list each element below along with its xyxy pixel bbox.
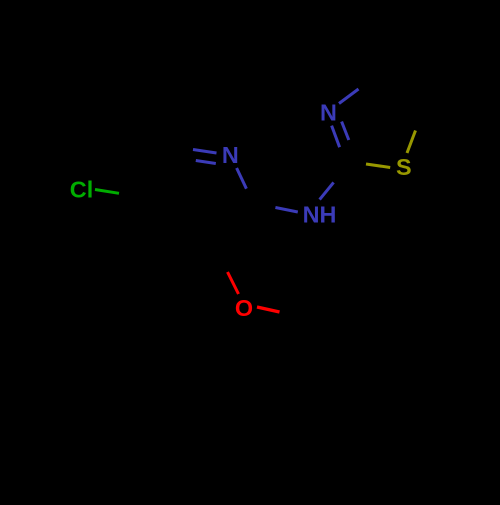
svg-text:S: S (396, 154, 412, 180)
bond C6=N1 pyridine double, outer line (blue half) (193, 150, 217, 154)
bond N3=C2 thiazole double, inner line (blue half) (342, 122, 349, 140)
bond C6=N1 pyridine double, inner line (blue half) (196, 161, 216, 164)
bond NH-C2(thiazole) (blue half) (320, 182, 334, 199)
svg-text:O: O (235, 295, 253, 321)
bond N1-C2 pyridine (blue half) (237, 168, 247, 189)
bond C2(pyridine)-NH (blue half) (275, 208, 297, 213)
bond N3-C4 thiazole (blue half) (339, 89, 359, 104)
bond N3=C2 thiazole double, outer line (blue half) (332, 126, 340, 148)
bond S1-C5 thiazole (gold half) (407, 131, 416, 154)
bond O-CH2 benzyl (red half) (257, 307, 280, 312)
svg-text:Cl: Cl (70, 177, 93, 203)
svg-text:N: N (222, 142, 239, 168)
svg-text:NH: NH (303, 202, 337, 228)
bond Cl-C5 (green half) (95, 190, 119, 194)
svg-text:N: N (320, 99, 337, 125)
bond C3(pyridine)-O (red half) (228, 272, 239, 294)
bond S1-C2 thiazole (gold half) (366, 164, 390, 168)
